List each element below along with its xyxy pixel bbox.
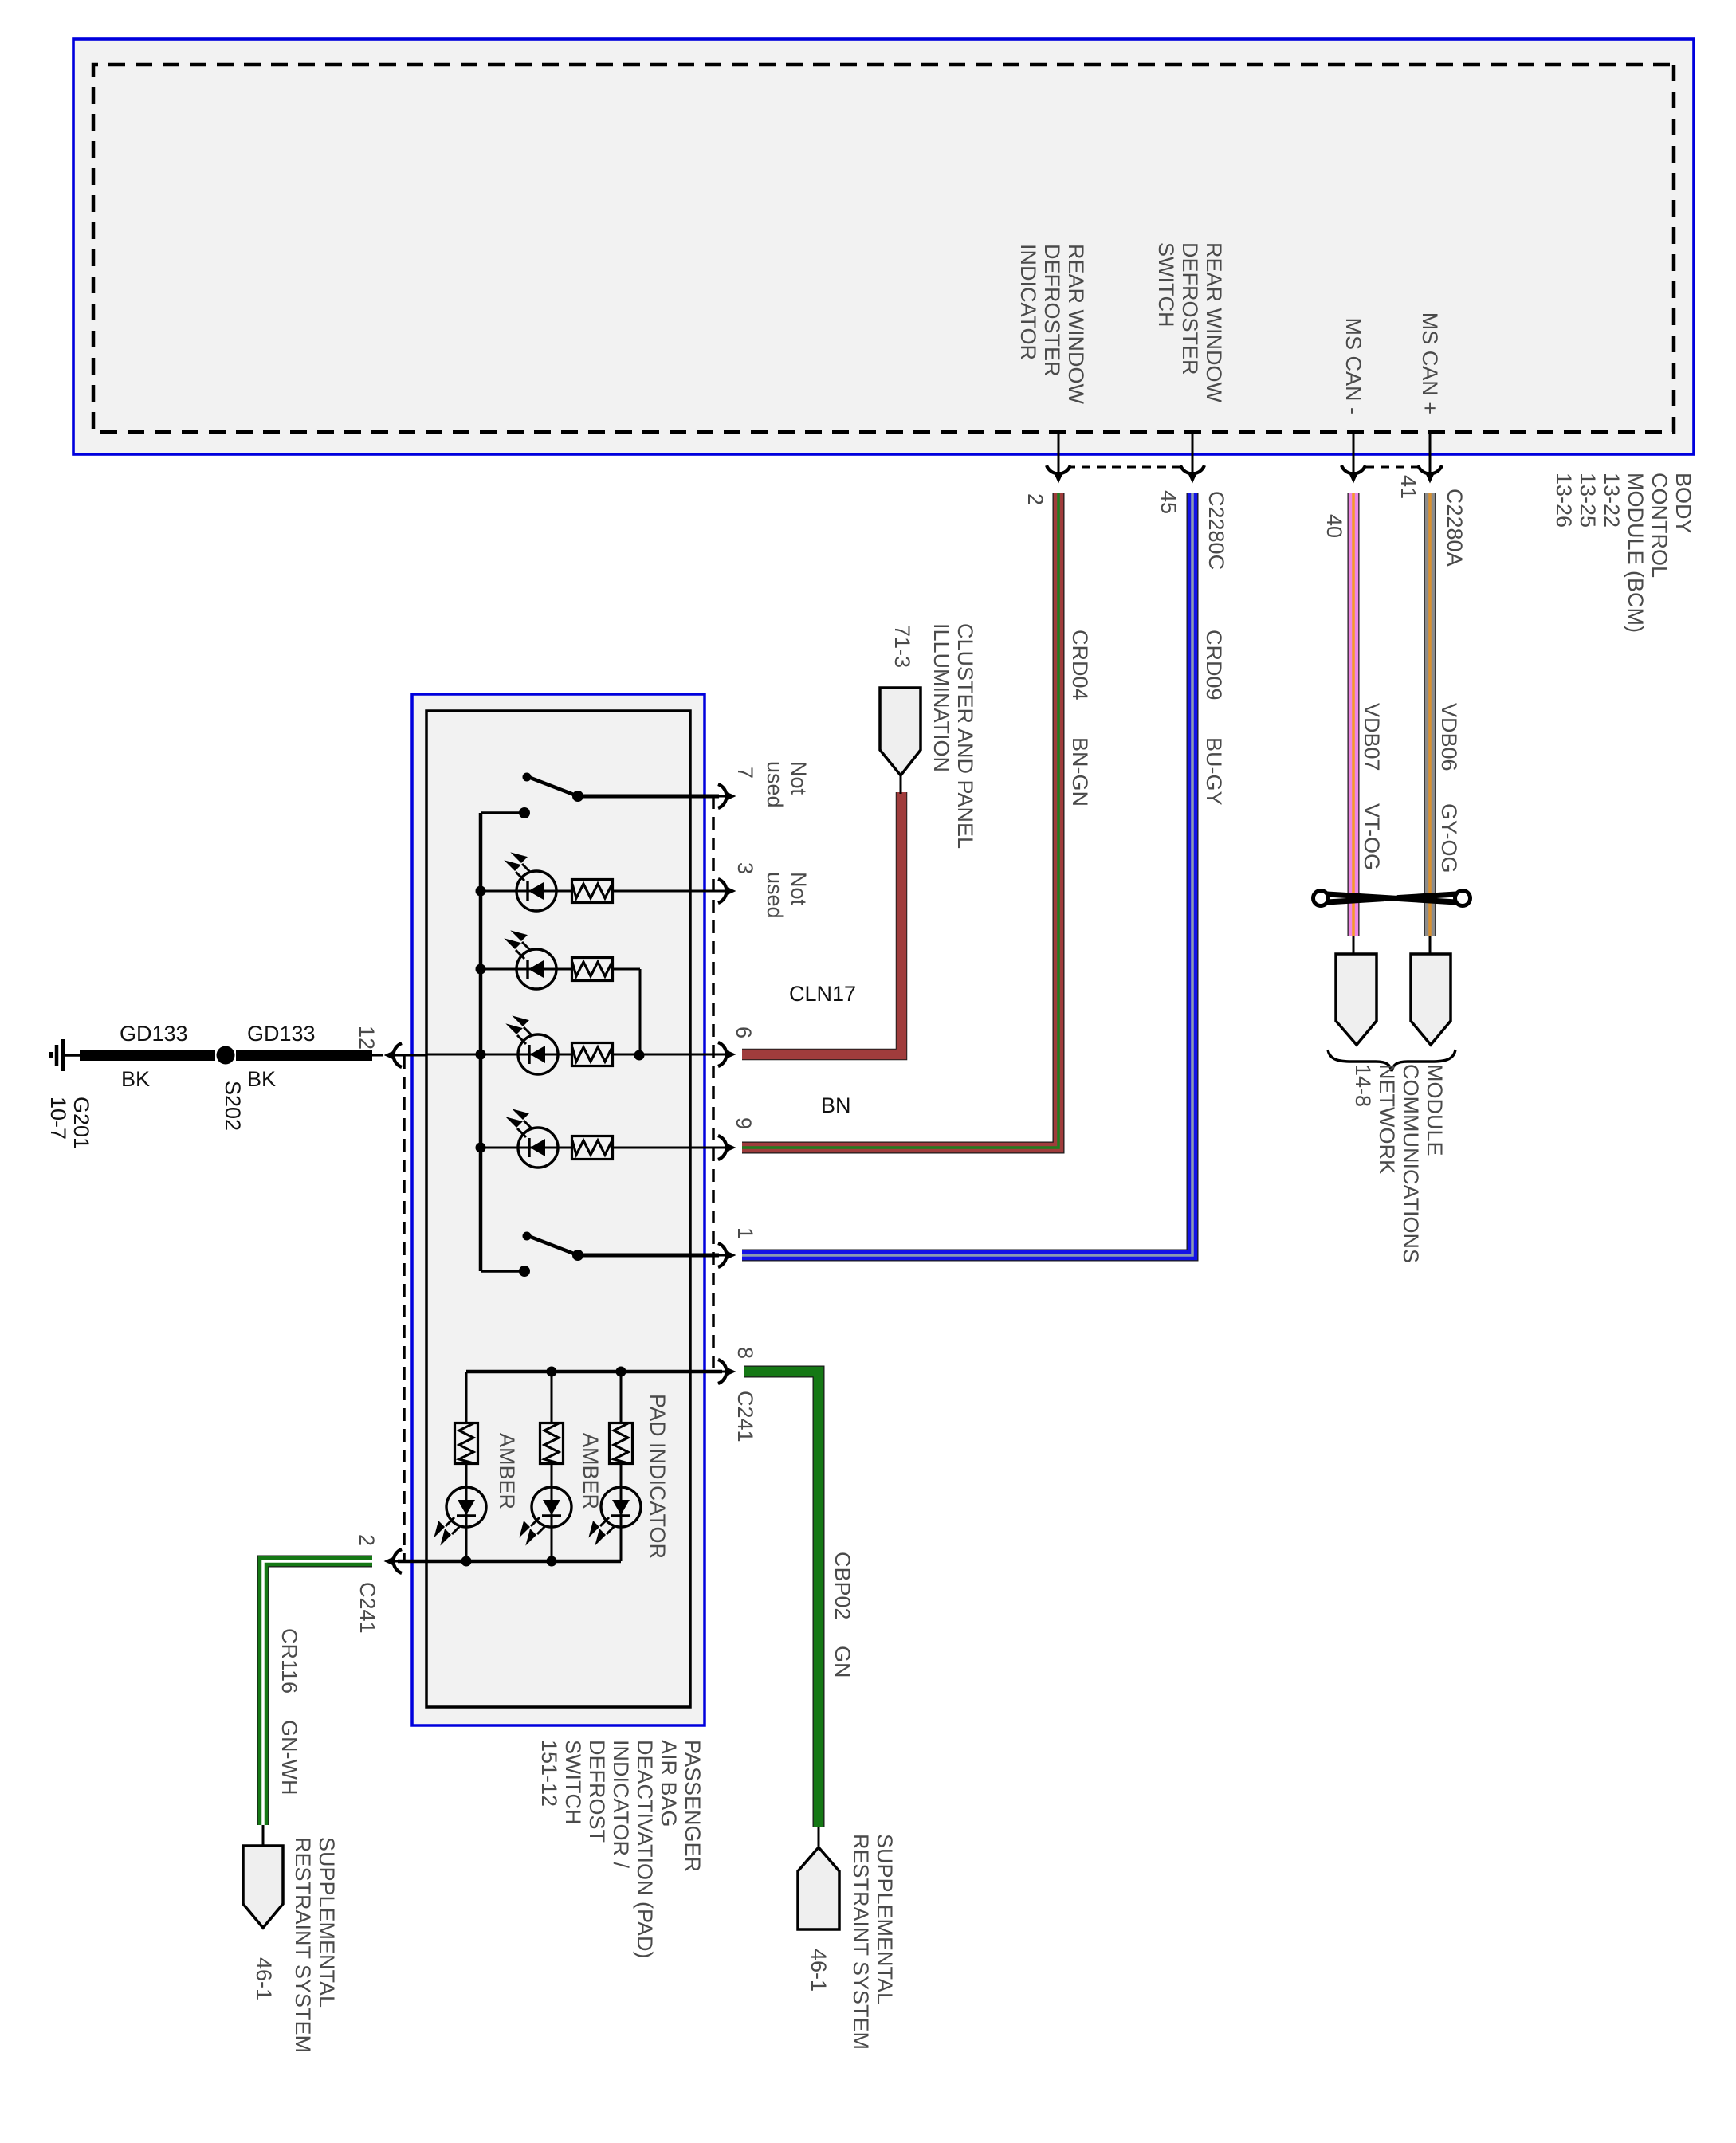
- svg-text:BK: BK: [247, 1067, 276, 1091]
- svg-text:CR116: CR116: [277, 1628, 301, 1694]
- svg-text:SWITCH: SWITCH: [561, 1740, 585, 1824]
- svg-text:71-3: 71-3: [890, 625, 914, 668]
- svg-text:46-1: 46-1: [807, 1949, 831, 1992]
- svg-text:SWITCH: SWITCH: [1154, 242, 1178, 327]
- svg-text:used: used: [763, 872, 787, 919]
- svg-text:CRD04: CRD04: [1068, 630, 1092, 701]
- svg-text:SUPPLEMENTAL: SUPPLEMENTAL: [873, 1834, 897, 2004]
- svg-text:PAD INDICATOR: PAD INDICATOR: [646, 1394, 670, 1559]
- svg-text:DEFROSTER: DEFROSTER: [1178, 242, 1202, 375]
- svg-text:CLUSTER AND PANEL: CLUSTER AND PANEL: [953, 623, 977, 849]
- svg-text:3: 3: [733, 862, 757, 874]
- svg-text:G201: G201: [69, 1097, 93, 1149]
- svg-text:VDB07: VDB07: [1360, 703, 1384, 771]
- svg-text:ILLUMINATION: ILLUMINATION: [929, 623, 953, 772]
- svg-text:BN-GN: BN-GN: [1068, 737, 1092, 807]
- svg-text:C241: C241: [355, 1582, 379, 1634]
- svg-text:GD133: GD133: [247, 1022, 316, 1046]
- svg-text:RESTRAINT SYSTEM: RESTRAINT SYSTEM: [291, 1837, 315, 2053]
- svg-text:1: 1: [733, 1227, 757, 1239]
- svg-text:8: 8: [733, 1347, 757, 1359]
- svg-text:GY-OG: GY-OG: [1437, 803, 1461, 873]
- svg-text:MODULE (BCM): MODULE (BCM): [1624, 473, 1648, 633]
- svg-text:AMBER: AMBER: [579, 1433, 603, 1509]
- svg-text:REAR WINDOW: REAR WINDOW: [1064, 244, 1088, 405]
- svg-text:CBP02: CBP02: [831, 1552, 854, 1620]
- svg-text:14-8: 14-8: [1351, 1064, 1375, 1107]
- svg-text:INDICATOR /: INDICATOR /: [609, 1740, 633, 1869]
- svg-text:used: used: [763, 761, 787, 808]
- svg-text:7: 7: [733, 767, 757, 779]
- svg-text:10-7: 10-7: [46, 1097, 70, 1140]
- svg-text:40: 40: [1322, 514, 1346, 538]
- svg-text:BK: BK: [121, 1067, 150, 1091]
- svg-text:2: 2: [1023, 493, 1047, 505]
- svg-text:46-1: 46-1: [252, 1957, 276, 2000]
- svg-text:MS CAN -: MS CAN -: [1341, 318, 1365, 415]
- svg-text:C241: C241: [733, 1391, 757, 1442]
- svg-text:DEFROST: DEFROST: [585, 1740, 609, 1843]
- svg-text:GN-WH: GN-WH: [277, 1720, 301, 1795]
- svg-text:GD133: GD133: [120, 1022, 188, 1046]
- svg-text:9: 9: [732, 1117, 756, 1129]
- svg-text:INDICATOR: INDICATOR: [1016, 244, 1040, 360]
- svg-text:DEACTIVATION (PAD): DEACTIVATION (PAD): [633, 1740, 657, 1959]
- svg-text:SUPPLEMENTAL: SUPPLEMENTAL: [315, 1837, 339, 2008]
- svg-text:VDB06: VDB06: [1437, 703, 1461, 771]
- svg-text:DEFROSTER: DEFROSTER: [1040, 244, 1064, 377]
- svg-text:PASSENGER: PASSENGER: [681, 1740, 705, 1872]
- svg-text:CRD09: CRD09: [1202, 630, 1226, 701]
- svg-text:13-26: 13-26: [1552, 473, 1576, 528]
- svg-text:AIR BAG: AIR BAG: [657, 1740, 681, 1827]
- svg-text:45: 45: [1157, 490, 1180, 514]
- svg-text:6: 6: [732, 1026, 756, 1038]
- svg-text:GN: GN: [831, 1646, 854, 1678]
- svg-text:BU-GY: BU-GY: [1202, 737, 1226, 806]
- svg-text:151-12: 151-12: [537, 1740, 561, 1807]
- svg-text:REAR WINDOW: REAR WINDOW: [1202, 242, 1226, 403]
- svg-text:CLN17: CLN17: [789, 982, 856, 1006]
- svg-text:AMBER: AMBER: [495, 1433, 519, 1509]
- svg-text:MS CAN +: MS CAN +: [1418, 312, 1442, 414]
- svg-text:MODULE: MODULE: [1423, 1064, 1447, 1156]
- svg-text:BODY: BODY: [1671, 473, 1695, 534]
- svg-text:2: 2: [355, 1534, 379, 1546]
- svg-text:CONTROL: CONTROL: [1648, 473, 1671, 578]
- svg-text:RESTRAINT SYSTEM: RESTRAINT SYSTEM: [849, 1834, 873, 2050]
- svg-text:BN: BN: [821, 1093, 851, 1117]
- svg-text:C2280C: C2280C: [1204, 491, 1228, 570]
- svg-text:S202: S202: [221, 1081, 245, 1131]
- svg-text:13-25: 13-25: [1576, 473, 1600, 528]
- svg-text:COMMUNICATIONS: COMMUNICATIONS: [1399, 1064, 1423, 1263]
- svg-text:Not: Not: [787, 872, 811, 906]
- svg-text:VT-OG: VT-OG: [1360, 803, 1384, 870]
- svg-text:Not: Not: [787, 761, 811, 795]
- svg-text:13-22: 13-22: [1600, 473, 1624, 528]
- svg-text:12: 12: [355, 1026, 379, 1050]
- svg-text:C2280A: C2280A: [1443, 489, 1467, 567]
- svg-text:NETWORK: NETWORK: [1375, 1064, 1399, 1174]
- svg-text:41: 41: [1396, 475, 1420, 499]
